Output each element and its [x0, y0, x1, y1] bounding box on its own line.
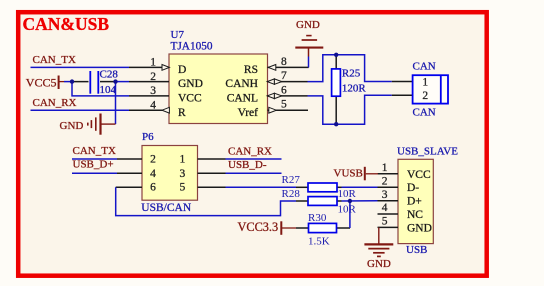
svg-text:3: 3: [150, 85, 156, 97]
svg-text:CAN_TX: CAN_TX: [33, 54, 76, 66]
svg-text:VCC3.3: VCC3.3: [238, 220, 279, 234]
svg-text:RS: RS: [244, 64, 258, 76]
svg-text:GND: GND: [407, 222, 432, 234]
svg-text:R30: R30: [308, 212, 327, 224]
svg-text:2: 2: [382, 175, 388, 187]
svg-text:1: 1: [150, 57, 156, 69]
svg-text:3: 3: [180, 168, 186, 180]
svg-text:2: 2: [150, 154, 156, 166]
svg-text:1: 1: [422, 76, 428, 88]
svg-text:2: 2: [422, 90, 428, 102]
svg-text:NC: NC: [407, 209, 423, 221]
svg-text:CAN_TX: CAN_TX: [73, 145, 116, 157]
svg-text:5: 5: [180, 182, 186, 194]
svg-text:GND: GND: [296, 19, 320, 31]
svg-text:D+: D+: [407, 196, 422, 208]
svg-text:6: 6: [150, 182, 156, 194]
svg-text:USB_SLAVE: USB_SLAVE: [397, 145, 458, 157]
svg-text:GND: GND: [178, 78, 203, 90]
svg-text:3: 3: [382, 189, 388, 201]
svg-text:P6: P6: [142, 131, 154, 143]
svg-text:7: 7: [281, 70, 287, 82]
svg-text:GND: GND: [60, 120, 84, 132]
svg-text:10R: 10R: [338, 203, 357, 215]
svg-text:4: 4: [150, 168, 156, 180]
svg-text:6: 6: [281, 84, 287, 96]
svg-text:USB: USB: [406, 244, 427, 256]
svg-text:D: D: [178, 64, 186, 76]
svg-text:USB_D-: USB_D-: [228, 159, 267, 171]
svg-text:104: 104: [100, 84, 117, 96]
svg-text:C28: C28: [100, 68, 119, 80]
svg-text:CAN&USB: CAN&USB: [23, 14, 110, 34]
svg-text:R25: R25: [342, 68, 361, 80]
svg-text:R28: R28: [282, 188, 301, 200]
svg-text:VCC: VCC: [178, 93, 202, 105]
svg-text:VCC: VCC: [407, 169, 431, 181]
svg-text:4: 4: [382, 202, 388, 214]
svg-text:120R: 120R: [342, 82, 367, 94]
svg-text:CAN: CAN: [413, 107, 436, 119]
svg-text:D-: D-: [407, 182, 419, 194]
svg-text:1: 1: [180, 154, 186, 166]
svg-text:CAN: CAN: [413, 61, 436, 73]
svg-text:USB/CAN: USB/CAN: [141, 202, 192, 214]
svg-text:5: 5: [382, 216, 388, 228]
svg-text:1: 1: [382, 162, 388, 174]
svg-text:1.5K: 1.5K: [308, 236, 330, 248]
svg-text:2: 2: [150, 71, 156, 83]
svg-text:R27: R27: [282, 174, 301, 186]
svg-text:R: R: [178, 107, 186, 119]
svg-text:VCC5: VCC5: [26, 76, 57, 90]
svg-text:Vref: Vref: [238, 107, 259, 119]
svg-text:CAN_RX: CAN_RX: [33, 97, 77, 109]
svg-text:8: 8: [281, 56, 287, 68]
svg-text:CANH: CANH: [225, 78, 258, 90]
svg-text:4: 4: [150, 99, 156, 111]
svg-text:CANL: CANL: [227, 93, 258, 105]
svg-text:VUSB: VUSB: [334, 167, 363, 179]
svg-text:TJA1050: TJA1050: [171, 40, 213, 52]
svg-text:CAN_RX: CAN_RX: [228, 145, 272, 157]
svg-text:5: 5: [281, 99, 287, 111]
svg-text:GND: GND: [367, 258, 391, 270]
svg-text:USB_D+: USB_D+: [73, 159, 114, 171]
svg-text:10R: 10R: [338, 188, 357, 200]
